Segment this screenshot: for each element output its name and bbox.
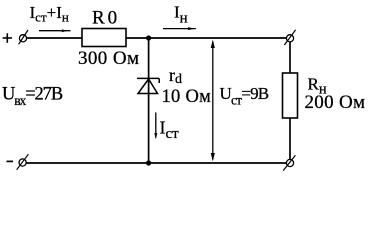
minus sign [7, 160, 14, 162]
svg-text:300 Ом: 300 Ом [78, 48, 139, 69]
svg-text:R0: R0 [92, 8, 120, 29]
wire bottom rail [27, 162, 287, 164]
wire right rail lower segment [289, 118, 291, 160]
plus sign [3, 33, 12, 43]
wire top rail right of R0 [126, 37, 287, 39]
arrow Uст double-headed [211, 40, 215, 161]
node junction bottom [146, 160, 151, 165]
wire middle vertical branch [148, 38, 150, 163]
terminal output bottom [283, 155, 295, 170]
resistor Rн [283, 73, 298, 118]
node junction top [146, 35, 151, 40]
arrow Iст [154, 113, 157, 140]
svg-text:10 Ом: 10 Ом [162, 87, 212, 107]
terminal input - [17, 154, 29, 170]
resistor R0 [82, 29, 126, 47]
zener diode VD [137, 78, 159, 93]
arrow Iст+Iн [39, 29, 71, 32]
wire right rail upper segment [289, 42, 291, 74]
arrow Iн [163, 27, 196, 30]
svg-text:200 Ом: 200 Ом [305, 92, 366, 113]
terminal output top [284, 30, 295, 45]
wire top rail [27, 37, 83, 39]
terminal input + [19, 30, 28, 44]
